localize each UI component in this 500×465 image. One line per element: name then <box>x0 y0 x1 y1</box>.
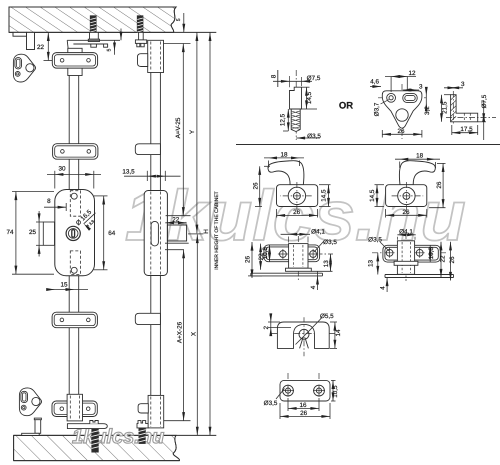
svg-text:26: 26 <box>245 256 252 264</box>
svg-text:Ø3,5: Ø3,5 <box>323 239 337 246</box>
svg-text:10,8: 10,8 <box>262 247 269 260</box>
svg-text:26: 26 <box>402 209 410 216</box>
svg-text:74: 74 <box>6 229 14 236</box>
svg-text:Ø3,7: Ø3,7 <box>373 102 380 116</box>
svg-text:10,8: 10,8 <box>428 247 435 260</box>
svg-text:12: 12 <box>408 70 416 77</box>
svg-text:26: 26 <box>436 181 443 189</box>
svg-text:Ø3,5: Ø3,5 <box>368 237 382 244</box>
svg-text:18: 18 <box>416 153 424 160</box>
svg-text:A=V-25: A=V-25 <box>175 117 182 138</box>
svg-text:4,6: 4,6 <box>370 79 379 86</box>
svg-text:26: 26 <box>449 256 456 264</box>
svg-text:Ø5,5: Ø5,5 <box>320 313 334 320</box>
svg-text:21,5: 21,5 <box>441 101 448 114</box>
svg-text:22: 22 <box>440 255 447 263</box>
svg-text:13: 13 <box>323 260 330 268</box>
svg-text:1kulcs.hu: 1kulcs.hu <box>72 426 164 448</box>
svg-text:13: 13 <box>367 260 374 268</box>
svg-text:3: 3 <box>461 81 465 88</box>
svg-text:3,2: 3,2 <box>424 106 431 115</box>
svg-text:22: 22 <box>37 44 45 51</box>
svg-text:26: 26 <box>300 410 308 417</box>
svg-text:3: 3 <box>419 83 423 90</box>
svg-text:H: H <box>203 229 210 234</box>
svg-text:Ø3,5: Ø3,5 <box>264 400 278 407</box>
svg-text:4: 4 <box>379 286 386 290</box>
svg-text:26: 26 <box>397 128 405 135</box>
svg-text:5: 5 <box>106 48 112 51</box>
svg-text:14,5: 14,5 <box>320 189 327 202</box>
svg-text:4: 4 <box>310 285 317 289</box>
svg-text:15: 15 <box>60 282 68 289</box>
svg-text:14,5: 14,5 <box>369 189 376 202</box>
svg-text:8: 8 <box>47 198 51 205</box>
svg-text:12,5: 12,5 <box>279 113 286 126</box>
svg-text:Ø4,1: Ø4,1 <box>399 228 413 235</box>
svg-text:8: 8 <box>270 74 277 78</box>
svg-text:Ø3,5: Ø3,5 <box>307 133 321 140</box>
svg-text:A+X-26: A+X-26 <box>177 321 184 343</box>
svg-text:Ø7,5: Ø7,5 <box>481 94 488 108</box>
svg-text:16: 16 <box>299 402 307 409</box>
svg-text:25: 25 <box>29 229 37 236</box>
svg-text:64: 64 <box>108 230 116 237</box>
svg-text:26: 26 <box>293 209 301 216</box>
svg-text:2: 2 <box>263 325 270 329</box>
svg-text:14: 14 <box>335 329 342 337</box>
svg-text:INNER HEIGHT OF THE CABINET: INNER HEIGHT OF THE CABINET <box>214 191 220 269</box>
svg-text:18: 18 <box>280 151 288 158</box>
svg-text:OR: OR <box>339 101 353 112</box>
svg-text:Ø7,5: Ø7,5 <box>307 75 321 82</box>
svg-text:5: 5 <box>176 18 182 21</box>
svg-text:17,5: 17,5 <box>460 126 473 133</box>
svg-text:Ø4,1: Ø4,1 <box>311 229 325 236</box>
svg-text:30: 30 <box>58 166 66 173</box>
svg-text:22: 22 <box>172 216 180 223</box>
svg-text:26: 26 <box>252 182 259 190</box>
svg-text:13,5: 13,5 <box>122 168 135 175</box>
svg-text:10,5: 10,5 <box>332 385 339 398</box>
